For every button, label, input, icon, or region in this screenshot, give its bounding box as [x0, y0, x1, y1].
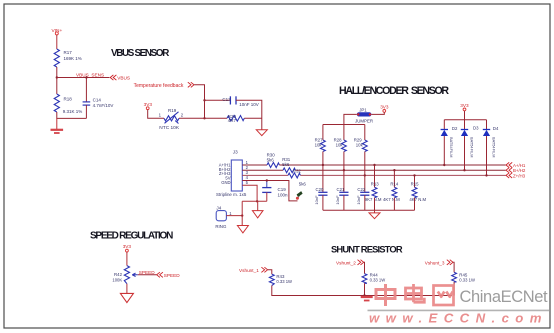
svg-text:10nF: 10nF — [356, 195, 361, 205]
node R13 at H1 — [373, 164, 375, 166]
resistor R30 — [267, 152, 280, 167]
svg-text:J3: J3 — [233, 150, 238, 155]
svg-text:R32: R32 — [293, 169, 302, 174]
wire GND line pin5 — [242, 185, 257, 201]
wire node to R18 — [56, 78, 58, 95]
node R27 at H1 — [322, 164, 324, 166]
jumper JP1 — [355, 107, 373, 123]
wire C19 bottom to gnd rail — [266, 192, 268, 201]
svg-text:10k: 10k — [336, 142, 344, 147]
off-page connector Temperature feedback — [134, 82, 194, 89]
node C13 branch — [203, 99, 205, 101]
svg-text:3V3: 3V3 — [380, 105, 389, 110]
wire hall ground rail — [323, 209, 415, 211]
svg-text:C14: C14 — [93, 98, 102, 103]
svg-text:9.31K 1%: 9.31K 1% — [63, 109, 83, 114]
svg-text:10nF: 10nF — [335, 195, 340, 205]
svg-text:4K7 N.M: 4K7 N.M — [409, 197, 426, 202]
wire C13 branch horizontal — [205, 99, 230, 101]
svg-text:0.33 1W: 0.33 1W — [276, 279, 292, 284]
connector J4 — [215, 205, 232, 229]
ground (J4) — [237, 226, 248, 233]
wire temp feedback to C13 node — [194, 85, 204, 119]
wire VBUS_SENS horizontal — [57, 77, 110, 79]
resistor R32 — [288, 169, 306, 187]
resistor R27 — [315, 138, 326, 152]
wire R42 bottom — [126, 284, 128, 294]
svg-text:SPEED: SPEED — [139, 270, 156, 275]
ground (speed pot) — [120, 293, 133, 302]
svg-text:100K: 100K — [112, 277, 122, 282]
wire VIN+ to R17 — [56, 35, 58, 49]
wire R29 column top — [364, 125, 366, 141]
svg-text:SPEED REGULATION: SPEED REGULATION — [90, 230, 173, 241]
resistor R18 — [54, 94, 82, 114]
svg-text:0.33 1W: 0.33 1W — [370, 278, 386, 283]
svg-text:R19: R19 — [168, 108, 177, 113]
wire diode bus — [444, 119, 486, 121]
svg-text:BAT54FILM: BAT54FILM — [449, 137, 454, 157]
svg-text:D4: D4 — [493, 126, 499, 131]
node D2 at H1 — [443, 164, 445, 166]
wire R14 bottom — [393, 198, 395, 210]
off-page connector Vshunt_1 — [239, 267, 268, 273]
svg-text:C21: C21 — [337, 187, 345, 192]
power 3V3 (NTC) — [144, 102, 153, 110]
thermistor R19 NTC — [159, 108, 180, 131]
capacitor C19 — [262, 187, 288, 197]
capacitor C22 — [356, 187, 369, 205]
svg-text:10k: 10k — [356, 142, 364, 147]
wire C13 to right rail — [236, 100, 262, 129]
svg-text:10k: 10k — [315, 142, 323, 147]
svg-text:1: 1 — [229, 211, 232, 216]
node R14 at H2 — [393, 169, 395, 171]
test point 5V — [296, 191, 303, 200]
ground (J3 pin5) — [252, 211, 263, 218]
wire Vshunt_2 to R44 — [363, 262, 366, 273]
wire C21 bottom — [343, 195, 345, 210]
resistor R29 — [354, 138, 367, 152]
off-page connector VBUS — [110, 75, 130, 81]
svg-text:C22: C22 — [357, 187, 365, 192]
watermark glyph zhong — [376, 284, 395, 306]
wire H2 line pin2 to R31 — [242, 169, 283, 171]
resistor R43 — [269, 274, 292, 286]
resistor R15 — [409, 182, 426, 203]
svg-text:J4: J4 — [216, 205, 221, 210]
node R15 at H3 — [413, 174, 415, 176]
wire D4 to H3 — [486, 136, 488, 175]
ground (shunt rail) — [361, 297, 373, 301]
svg-text:R13: R13 — [371, 182, 379, 187]
wire C20 bottom — [322, 195, 324, 210]
wire H2 line to off-page — [295, 169, 505, 171]
resistor R14 — [383, 182, 400, 203]
wire C19 top — [266, 181, 268, 188]
svg-text:R18: R18 — [64, 97, 73, 102]
wire R20 right — [244, 117, 261, 119]
svg-text:5k6: 5k6 — [267, 157, 275, 162]
power 3V3 (jumper) — [380, 105, 389, 113]
wire R27 column top — [322, 125, 324, 141]
svg-text:4.7nF/10V: 4.7nF/10V — [93, 103, 114, 108]
svg-text:VBUS SENSOR: VBUS SENSOR — [111, 48, 169, 59]
svg-text:3V3: 3V3 — [460, 103, 469, 108]
svg-text:C20: C20 — [316, 187, 324, 192]
wire R18 bottom rail — [57, 112, 87, 118]
svg-text:www.ECCN.com: www.ECCN.com — [369, 311, 548, 326]
connector J3 — [216, 150, 247, 197]
wire Vshunt_3 to R45 — [452, 262, 455, 272]
wire pullup bus — [323, 124, 365, 126]
svg-text:3V3: 3V3 — [144, 102, 153, 107]
wire R15 column — [414, 175, 416, 187]
wire J4 pin1 — [226, 215, 242, 217]
svg-text:3V3: 3V3 — [123, 244, 132, 249]
off-page connector A+/H1 — [506, 162, 526, 168]
wire gnd stub — [56, 118, 58, 129]
wire NTC to R20 — [179, 117, 227, 119]
svg-text:HALL/ENCODER SENSOR: HALL/ENCODER SENSOR — [339, 85, 449, 97]
svg-text:R15: R15 — [411, 182, 419, 187]
svg-text:10nF 10V: 10nF 10V — [239, 102, 259, 107]
wire H1 line to off-page — [279, 164, 505, 166]
watermark rule — [368, 309, 550, 311]
wire C22 bottom — [364, 195, 366, 210]
node J4 gnd — [241, 214, 243, 216]
svg-text:NTC 10K: NTC 10K — [159, 125, 180, 131]
capacitor C20 — [314, 187, 328, 205]
svg-text:D3: D3 — [473, 126, 479, 131]
svg-text:VIN+: VIN+ — [52, 28, 63, 34]
node D3 at H2 — [463, 169, 465, 171]
svg-text:BAT54FILM: BAT54FILM — [492, 137, 497, 157]
resistor R13 — [365, 182, 382, 203]
svg-text:5k6: 5k6 — [299, 181, 307, 186]
node gnd rail — [256, 200, 258, 202]
svg-text:0.33 1W: 0.33 1W — [459, 278, 475, 283]
wire R28 column to C21 — [343, 152, 345, 193]
wire 3V3 to NTC — [148, 110, 164, 119]
diode D3 — [461, 120, 479, 158]
svg-text:100n: 100n — [278, 192, 289, 197]
capacitor C13 — [222, 96, 258, 107]
wire R28 column top — [343, 125, 345, 141]
svg-text:4K7 N.M: 4K7 N.M — [383, 197, 400, 202]
off-page connector Vshunt_2 — [336, 260, 364, 266]
node D4 at H3 — [485, 174, 487, 176]
wire jumper to pullup bus — [344, 114, 357, 124]
wire 3V3 to R42 — [126, 252, 128, 266]
wire R14 column — [393, 170, 395, 187]
wire R13 bottom — [374, 198, 376, 210]
node VBUS_SENS junction — [56, 76, 58, 78]
svg-text:JP1: JP1 — [359, 107, 367, 112]
watermark glyph wang — [434, 286, 454, 306]
diode D2 — [441, 120, 458, 158]
svg-text:VBUS: VBUS — [117, 75, 130, 80]
svg-text:2: 2 — [181, 113, 184, 118]
wire H3 line pin3 to R32 — [242, 174, 288, 176]
svg-text:1: 1 — [159, 113, 162, 118]
wire 3V3 to diode bus — [464, 111, 466, 120]
wire R29 column to C22 — [364, 152, 366, 193]
wire wiper to SPEED — [138, 274, 157, 276]
svg-text:10nF: 10nF — [314, 195, 319, 205]
svg-text:BAT54FILM: BAT54FILM — [470, 137, 475, 157]
diode D4 — [483, 120, 499, 158]
svg-text:VBUS_SENS: VBUS_SENS — [76, 72, 104, 77]
svg-text:ChinaECNet: ChinaECNet — [460, 288, 549, 306]
ground (VBUS divider) — [51, 130, 64, 133]
wire D3 to H2 — [464, 136, 466, 170]
svg-text:169K 1%: 169K 1% — [64, 56, 82, 61]
svg-text:C13: C13 — [222, 97, 231, 102]
power 3V3 (diodes) — [460, 103, 469, 111]
wire hall gnd stub — [374, 210, 376, 213]
svg-text:C19: C19 — [278, 187, 287, 192]
resistor R45 — [452, 272, 475, 282]
svg-text:9K7 N.M: 9K7 N.M — [365, 197, 382, 202]
resistor R20 — [227, 114, 244, 123]
wire R45 bottom — [453, 282, 455, 296]
wire branch down to C14 — [85, 78, 87, 102]
resistor R28 — [334, 138, 347, 152]
svg-text:Stripline m. 1x5: Stripline m. 1x5 — [216, 192, 247, 197]
off-page connector Z+/H3 — [506, 173, 526, 179]
svg-text:Vshunt_2: Vshunt_2 — [336, 260, 356, 265]
svg-text:Vshunt_3: Vshunt_3 — [425, 260, 445, 265]
node C19 at 5V line — [266, 179, 268, 181]
resistor R17 — [54, 49, 82, 67]
svg-text:Vshunt_1: Vshunt_1 — [239, 268, 259, 273]
wire gnd rail under J3 — [242, 200, 267, 202]
wire R43 bottom to shunt rail — [272, 286, 452, 296]
power VIN+ — [52, 28, 63, 35]
resistor R44 — [362, 273, 385, 284]
node R28 at H2 — [343, 169, 345, 171]
wire J4 branch vertical — [241, 201, 243, 225]
potentiometer R42 — [112, 266, 137, 284]
wire R15 bottom — [414, 198, 416, 210]
svg-text:Temperature feedback: Temperature feedback — [134, 83, 184, 89]
svg-text:5k6: 5k6 — [282, 162, 290, 167]
svg-text:JUMPER: JUMPER — [355, 119, 373, 124]
node NTC rail — [203, 117, 205, 119]
wire 5V line pin4 — [242, 181, 297, 201]
off-page connector B+/H2 — [506, 168, 526, 174]
watermark glyph dian — [406, 284, 425, 302]
wire H3 line to off-page — [300, 174, 505, 176]
wire R27 column to C20 — [322, 152, 324, 193]
svg-text:D2: D2 — [452, 126, 458, 131]
power 3V3 (speed pot) — [123, 244, 132, 252]
off-page connector Vshunt_3 — [425, 260, 453, 266]
svg-text:SPEED: SPEED — [164, 273, 181, 278]
wire Vshunt_1 to R43 — [268, 270, 272, 274]
node junction at C14 branch — [85, 76, 87, 78]
svg-text:R17: R17 — [64, 50, 73, 55]
wire R13 column — [374, 165, 376, 187]
svg-text:GND: GND — [221, 180, 230, 185]
off-page connector SPEED — [157, 272, 181, 278]
wire D2 to H1 — [443, 136, 445, 165]
wire jumper to 3V3 — [371, 112, 384, 114]
svg-text:4R7: 4R7 — [228, 118, 237, 123]
ground (hall rail) — [369, 213, 380, 219]
node R29 at H3 — [364, 174, 366, 176]
ground (temp feedback) — [256, 130, 267, 136]
resistor R31 — [282, 157, 295, 173]
svg-text:Z+/H3: Z+/H3 — [513, 173, 526, 178]
wire H1 line pin1 to R30 — [242, 164, 267, 166]
wire R44 bottom — [364, 283, 366, 295]
svg-text:SHUNT RESISTOR: SHUNT RESISTOR — [331, 243, 403, 254]
capacitor C21 — [335, 187, 349, 205]
node R44 at rail — [363, 294, 365, 296]
wire gnd stub — [257, 201, 259, 210]
svg-text:RING: RING — [215, 224, 227, 229]
wire R17 to node — [56, 67, 58, 78]
capacitor C14 — [83, 98, 114, 109]
wire C14 bottom — [85, 105, 87, 118]
svg-text:R14: R14 — [390, 182, 398, 187]
